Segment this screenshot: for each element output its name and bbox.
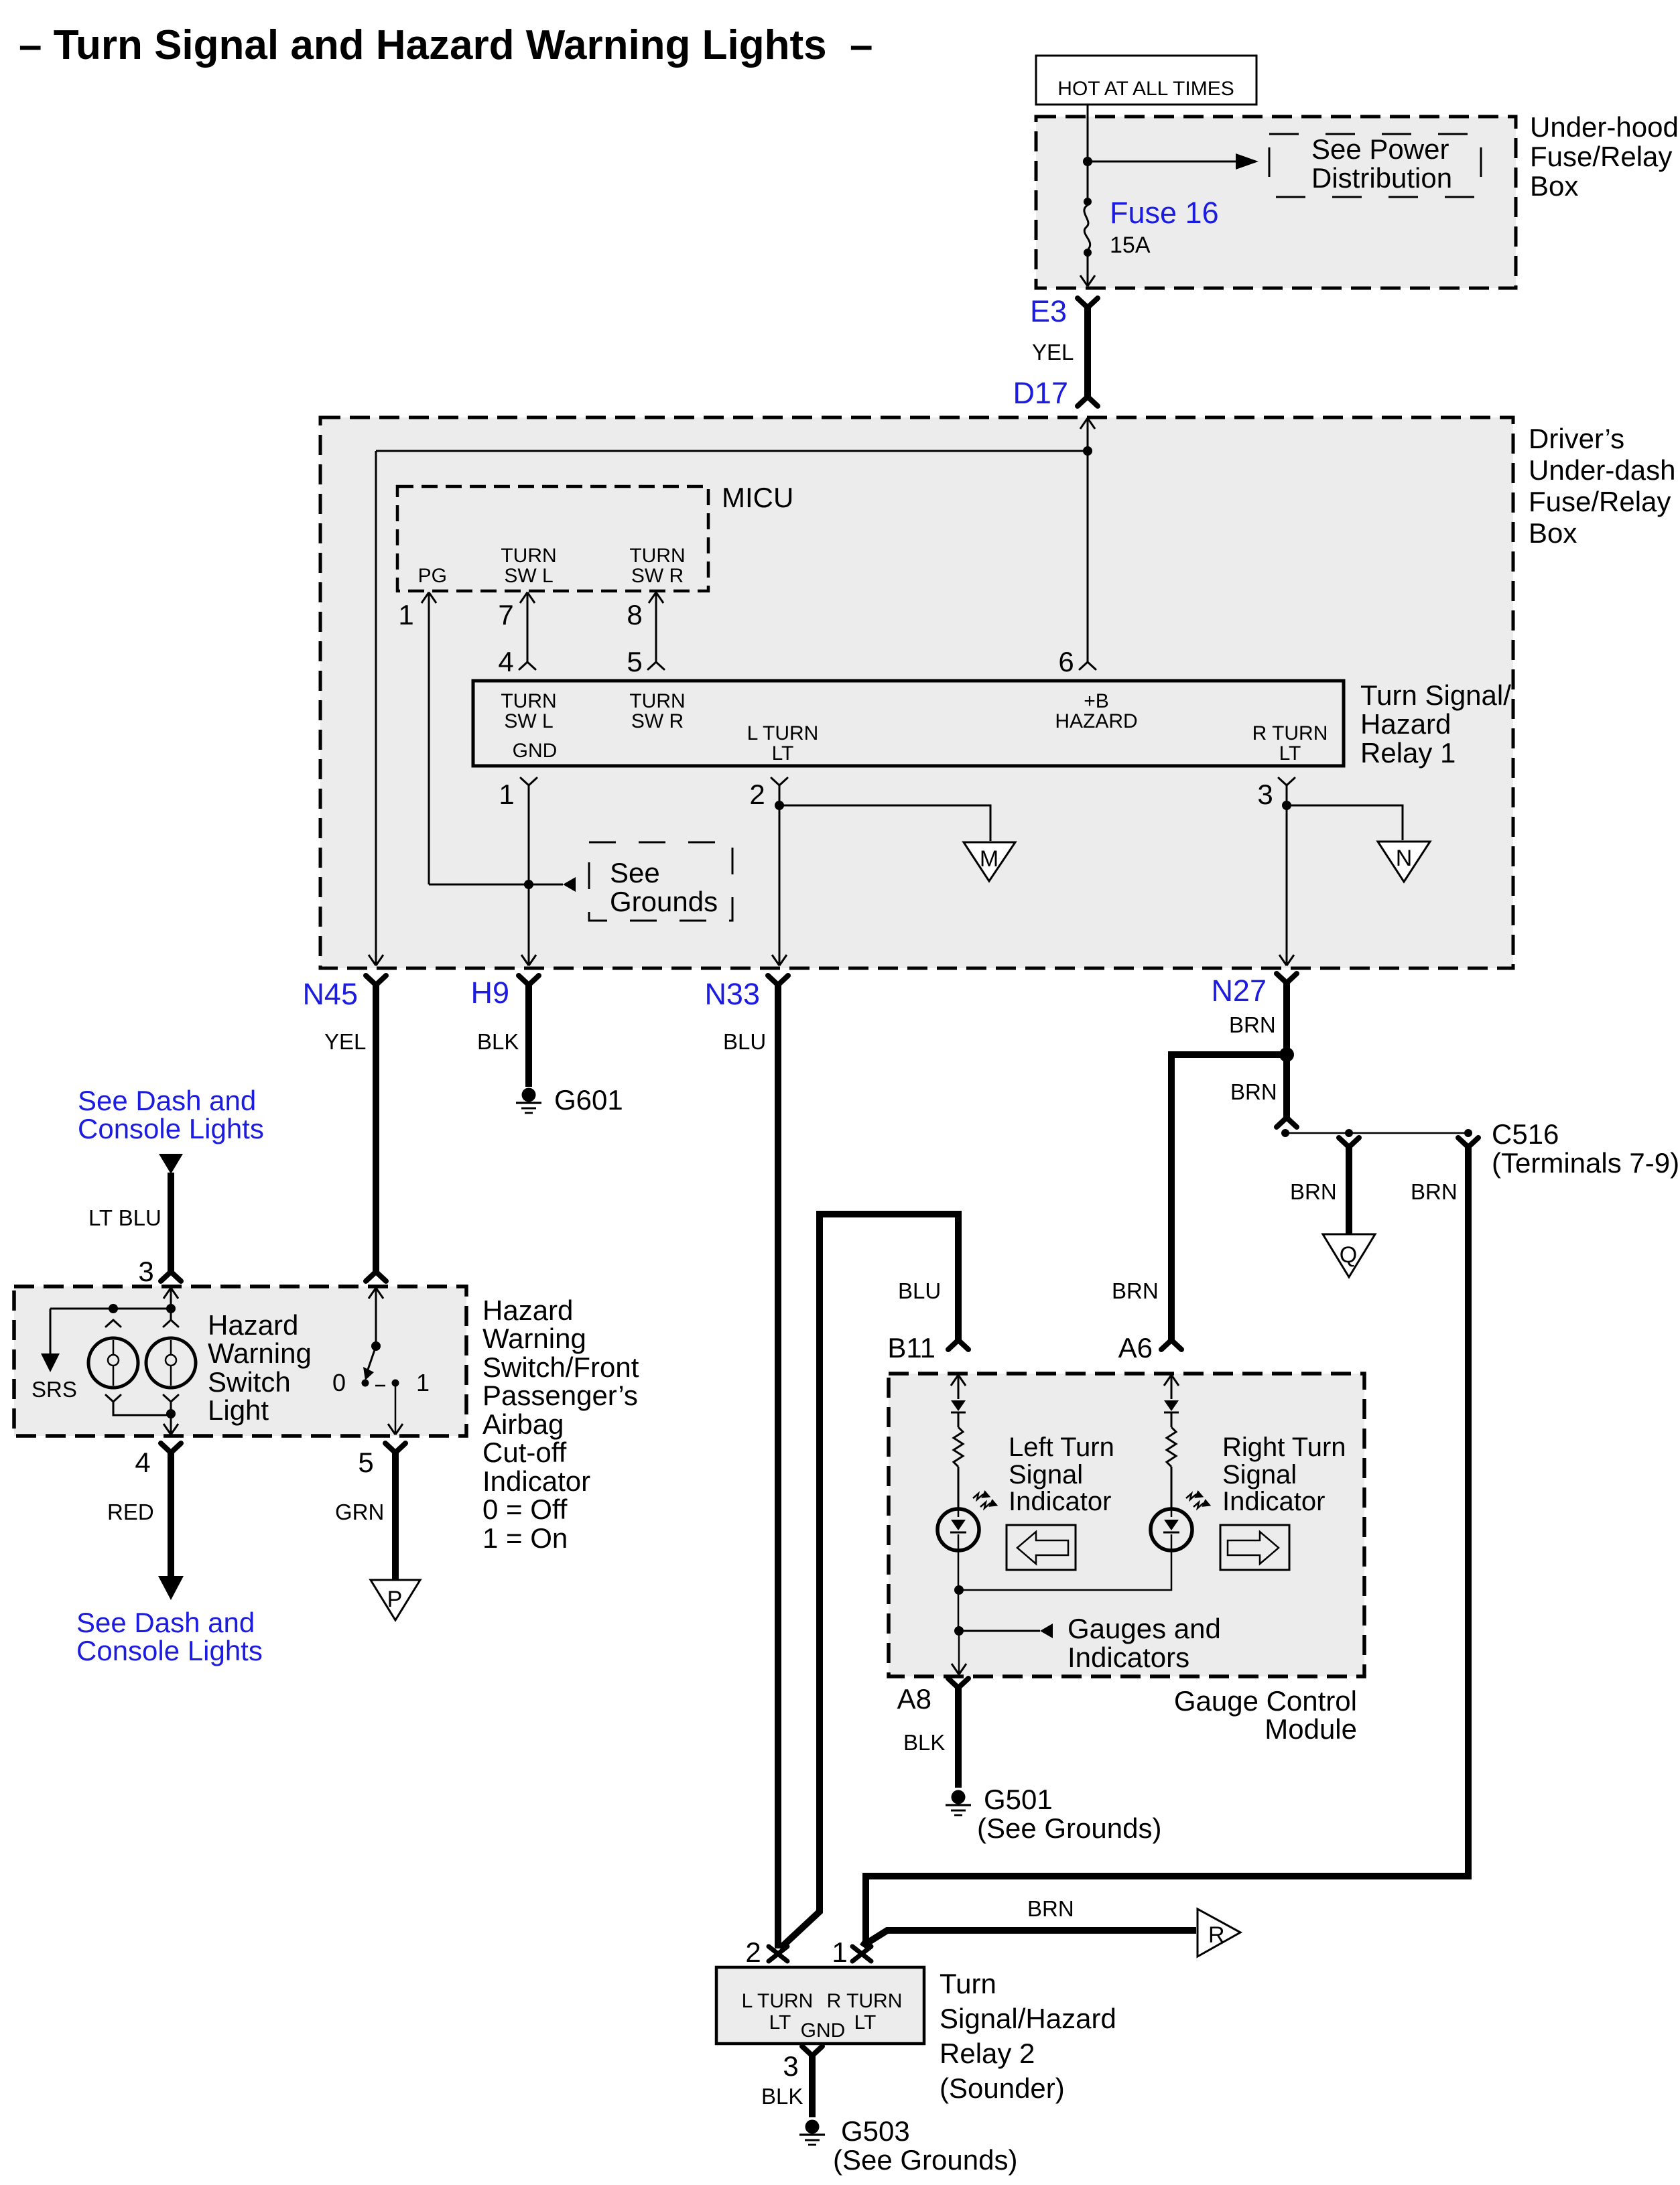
svg-text:8: 8 [627, 599, 642, 631]
node gauges tap [954, 1626, 964, 1636]
wire N45 YEL to hazard switch [373, 985, 379, 1272]
wire [1171, 1467, 1173, 1509]
wire lamp bus [50, 1308, 171, 1310]
connector relay2 pin3 [802, 2046, 822, 2056]
svg-text:1: 1 [398, 599, 413, 631]
svg-text:Fuse 16: Fuse 16 [1110, 196, 1219, 230]
svg-text:BLU: BLU [723, 1029, 766, 1054]
svg-text:SW L: SW L [504, 565, 553, 587]
svg-text:5: 5 [627, 646, 642, 677]
connector N33 [768, 976, 788, 985]
connector pin1 relay1 [521, 778, 537, 785]
power tag HOT AT ALL TIMES [1036, 56, 1256, 105]
wire to M [779, 805, 990, 841]
wire SRS drop [50, 1309, 52, 1353]
LED light rays right [1186, 1494, 1204, 1508]
gauge control module box [889, 1374, 1364, 1676]
wire feed to N45 drop [376, 450, 1088, 452]
svg-text:Distribution: Distribution [1311, 162, 1452, 194]
svg-text:Signal/Hazard: Signal/Hazard [940, 2003, 1116, 2034]
svg-text:3: 3 [138, 1256, 153, 1287]
under-hood fuse/relay box [1036, 117, 1516, 288]
svg-text:Fuse/Relay: Fuse/Relay [1529, 486, 1671, 517]
svg-text:H9: H9 [470, 976, 509, 1010]
fuse F16 top terminal [1084, 198, 1092, 206]
resistor R2 [1167, 1427, 1176, 1467]
svg-text:Box: Box [1529, 517, 1577, 549]
wire D17 feed into box [1080, 418, 1095, 429]
svg-text:Under-dash: Under-dash [1529, 454, 1675, 486]
svg-text:Gauge Control: Gauge Control [1174, 1685, 1357, 1717]
svg-text:(Sounder): (Sounder) [940, 2072, 1065, 2104]
svg-text:Under-hood: Under-hood [1530, 111, 1679, 143]
svg-text:See Dash and: See Dash and [76, 1607, 255, 1638]
svg-text:1: 1 [832, 1936, 847, 1968]
connector N27 [1277, 974, 1297, 983]
left arrow icon box [1007, 1525, 1076, 1570]
svg-text:4: 4 [135, 1447, 150, 1478]
svg-text:SRS: SRS [31, 1377, 77, 1402]
connector A8 [948, 1678, 968, 1688]
svg-text:E3: E3 [1030, 294, 1067, 328]
svg-text:N: N [1396, 846, 1413, 871]
connector pin2 relay1 [771, 778, 787, 785]
svg-text:Indicator: Indicator [1009, 1487, 1111, 1516]
svg-text:1: 1 [499, 779, 514, 810]
svg-text:LT: LT [769, 2011, 791, 2034]
triangle P destination [371, 1580, 420, 1620]
svg-text:R TURN: R TURN [827, 1990, 903, 2012]
svg-text:HAZARD: HAZARD [1055, 710, 1137, 732]
connector bulb1 top [106, 1320, 121, 1327]
svg-text:+B: +B [1084, 690, 1109, 712]
svg-text:Box: Box [1530, 170, 1578, 202]
svg-text:L TURN: L TURN [747, 722, 819, 744]
svg-text:M: M [980, 846, 998, 872]
triangle Q destination [1323, 1234, 1375, 1277]
wire A8 BLK to G501 [955, 1688, 962, 1788]
svg-text:See Dash and: See Dash and [78, 1085, 256, 1116]
wire C516 bus [1285, 1132, 1468, 1134]
connector pin 6 relay1 [1080, 662, 1096, 669]
svg-text:GRN: GRN [335, 1500, 384, 1524]
wire [1171, 1412, 1173, 1427]
wire [1087, 161, 1089, 200]
wire to power distribution [1088, 161, 1238, 163]
svg-text:N27: N27 [1211, 974, 1267, 1008]
svg-text:LT: LT [1279, 742, 1301, 765]
svg-text:PG: PG [418, 565, 447, 587]
svg-text:Indicator: Indicator [1222, 1487, 1325, 1516]
node switch pivot [371, 1341, 381, 1351]
svg-text:G601: G601 [554, 1084, 623, 1116]
wire N27 BRN [1283, 983, 1290, 1055]
svg-text:Relay 2: Relay 2 [940, 2038, 1035, 2069]
svg-text:BLK: BLK [477, 1029, 519, 1054]
svg-text:Signal: Signal [1222, 1460, 1297, 1489]
wire bulb1 to junction [113, 1402, 170, 1415]
svg-text:YEL: YEL [1032, 340, 1074, 365]
wire TURN SW L pin [520, 592, 535, 603]
connector bulb2 top [164, 1320, 178, 1327]
svg-text:Warning: Warning [482, 1323, 586, 1354]
contact gap dash [375, 1385, 385, 1387]
wire [958, 1412, 960, 1427]
svg-text:R: R [1208, 1922, 1225, 1948]
fuse F16 element [1084, 205, 1090, 250]
relay U1 Turn Signal/Hazard Relay 1 box [473, 681, 1344, 766]
right arrow icon box [1220, 1525, 1289, 1570]
fuse F16 bottom terminal [1084, 249, 1092, 257]
svg-text:Passenger’s: Passenger’s [482, 1380, 638, 1411]
svg-text:Warning: Warning [208, 1337, 312, 1369]
svg-text:BLK: BLK [903, 1730, 945, 1755]
node indicators join [954, 1585, 964, 1595]
svg-text:TURN: TURN [501, 690, 556, 712]
LED R indicator lamp [1151, 1509, 1192, 1550]
svg-text:BLU: BLU [898, 1278, 941, 1303]
node lamp bus right [166, 1304, 176, 1313]
wire C516 to relay2 pin1 BRN [1458, 1138, 1478, 1147]
svg-text:15A: 15A [1110, 233, 1151, 258]
svg-text:A6: A6 [1118, 1332, 1153, 1364]
svg-text:Signal: Signal [1009, 1460, 1083, 1489]
svg-text:4: 4 [498, 646, 513, 677]
svg-text:C516: C516 [1492, 1118, 1559, 1150]
wire junction to C516 BRN [1283, 1055, 1290, 1118]
svg-text:Console Lights: Console Lights [76, 1635, 263, 1666]
wire switch out [395, 1383, 397, 1434]
node ground junction [524, 880, 533, 889]
svg-text:B11: B11 [887, 1332, 935, 1364]
wire R TURN LT to N27 [1286, 785, 1288, 965]
node feed split [1083, 446, 1092, 456]
wire hazard pin6 inside [369, 1288, 383, 1299]
svg-text:LT: LT [772, 742, 794, 765]
resistor R1 [954, 1427, 963, 1467]
triangle N destination [1378, 842, 1430, 882]
svg-text:– Turn Signal and Hazard Warni: – Turn Signal and Hazard Warning Lights … [19, 22, 873, 68]
wire C516 to Q BRN [1339, 1138, 1359, 1147]
connector relay2 pin2 [769, 1946, 787, 1961]
wire RED see dash [168, 1453, 174, 1576]
wire to A8 [958, 1631, 960, 1674]
svg-text:SW L: SW L [504, 710, 553, 732]
svg-text:3: 3 [783, 2050, 798, 2082]
svg-text:SW R: SW R [631, 710, 684, 732]
connector bulb2 bottom [164, 1395, 178, 1402]
svg-text:TURN: TURN [501, 545, 556, 567]
svg-text:6: 6 [1058, 646, 1074, 677]
svg-text:3: 3 [1257, 779, 1273, 810]
svg-text:L TURN: L TURN [742, 1990, 814, 2012]
connector relay2 pin1 [852, 1946, 871, 1961]
diode D2 [1164, 1400, 1179, 1411]
diode D1 [951, 1400, 966, 1411]
wire [958, 1467, 960, 1509]
svg-text:Driver’s: Driver’s [1529, 423, 1624, 454]
svg-text:See: See [610, 857, 660, 888]
relay U2 Turn Signal/Hazard Relay 2 box [716, 1967, 924, 2044]
svg-text:Left Turn: Left Turn [1009, 1433, 1114, 1462]
node lamp out [166, 1409, 176, 1418]
wire relay2 pin2 to B11 BLU [780, 1214, 958, 1948]
svg-text:2: 2 [745, 1936, 761, 1968]
svg-text:BRN: BRN [1230, 1079, 1277, 1104]
node C516 terminal 9 [1464, 1129, 1472, 1137]
wire junction to A6 BRN [1171, 1055, 1287, 1340]
svg-text:Hazard: Hazard [1360, 708, 1451, 740]
contact 1 [392, 1380, 399, 1387]
svg-text:Grounds: Grounds [610, 886, 718, 917]
contact 0 [362, 1380, 369, 1387]
svg-text:BRN: BRN [1290, 1179, 1337, 1204]
wire hazard pin3 inside [164, 1288, 178, 1299]
connector H9 [519, 976, 539, 985]
wire GRN to P [392, 1453, 399, 1580]
svg-text:Switch: Switch [208, 1366, 291, 1398]
bulb L2 hazard switch light [146, 1338, 196, 1388]
wire PG to ground junction [429, 884, 527, 886]
svg-text:GND: GND [513, 740, 558, 762]
wire E3-D17 YEL [1084, 308, 1091, 397]
ground G501 [952, 1790, 966, 1804]
svg-text:Switch/Front: Switch/Front [482, 1351, 639, 1383]
node BRN junction [1279, 1047, 1294, 1062]
wire H9 BLK to G601 [525, 985, 532, 1087]
hazard warning switch box [14, 1286, 466, 1436]
svg-text:Indicator: Indicator [482, 1465, 590, 1497]
svg-text:Module: Module [1265, 1713, 1357, 1745]
svg-text:0 = Off: 0 = Off [482, 1494, 568, 1525]
MICU box [397, 486, 708, 591]
svg-text:See Power: See Power [1311, 133, 1449, 165]
svg-text:A8: A8 [897, 1683, 931, 1715]
svg-text:BLK: BLK [761, 2084, 803, 2109]
wire L TURN LT to N33 [779, 785, 781, 965]
svg-text:BRN: BRN [1027, 1896, 1074, 1921]
svg-text:Hazard: Hazard [208, 1309, 298, 1341]
svg-text:Airbag: Airbag [482, 1408, 564, 1440]
svg-text:Relay 1: Relay 1 [1360, 737, 1456, 769]
svg-text:Hazard: Hazard [482, 1295, 573, 1326]
triangle M destination [964, 842, 1015, 881]
node C516 terminal 7 [1345, 1129, 1353, 1137]
connector pin3 relay1 [1279, 778, 1295, 785]
svg-text:MICU: MICU [722, 482, 793, 513]
svg-text:Fuse/Relay: Fuse/Relay [1530, 141, 1672, 172]
LED light rays left [973, 1494, 990, 1508]
svg-text:Cut-off: Cut-off [482, 1437, 567, 1468]
connector hazard pin4 [161, 1443, 181, 1453]
svg-text:GND: GND [801, 2020, 846, 2042]
svg-text:Indicators: Indicators [1068, 1642, 1189, 1673]
wire LT BLU to hazard pin3 [159, 1154, 183, 1174]
svg-text:N45: N45 [302, 977, 358, 1011]
switch lever S1 [368, 1346, 376, 1370]
see-grounds arrow [529, 884, 563, 886]
svg-text:(See Grounds): (See Grounds) [977, 1812, 1161, 1844]
wire relay2 BLK to G503 [809, 2056, 816, 2117]
svg-text:RED: RED [107, 1500, 154, 1524]
svg-text:R TURN: R TURN [1252, 722, 1328, 744]
svg-text:LT: LT [854, 2011, 877, 2034]
connector D17 [1078, 397, 1098, 406]
ground G503 [805, 2120, 820, 2134]
svg-text:Turn Signal/: Turn Signal/ [1360, 679, 1511, 711]
ground G601 [522, 1088, 536, 1102]
node L turn split [775, 801, 784, 810]
svg-text:0: 0 [332, 1369, 346, 1396]
svg-text:Right Turn: Right Turn [1222, 1433, 1346, 1462]
wire B11 inside [951, 1375, 966, 1386]
See Power Distribution reference box [1269, 134, 1481, 197]
svg-text:N33: N33 [704, 977, 760, 1011]
svg-text:YEL: YEL [324, 1029, 366, 1054]
wire LED right to join [959, 1550, 1171, 1590]
LED L indicator lamp [938, 1509, 979, 1550]
connector hazard pin5 [385, 1443, 405, 1453]
svg-text:Turn: Turn [940, 1968, 996, 1999]
svg-text:BRN: BRN [1112, 1278, 1159, 1303]
connector E3 [1078, 298, 1098, 308]
gauges arrow [959, 1630, 1040, 1632]
See Grounds reference box [589, 842, 732, 921]
svg-text:(See Grounds): (See Grounds) [833, 2144, 1017, 2176]
wire A6 inside [1164, 1375, 1179, 1386]
svg-text:Light: Light [208, 1394, 269, 1426]
svg-text:TURN: TURN [629, 545, 685, 567]
node R turn split [1282, 801, 1291, 810]
wire battery feed [1087, 105, 1089, 158]
driver's under-dash fuse/relay box [320, 417, 1513, 968]
svg-text:BRN: BRN [1411, 1179, 1458, 1204]
node C516 terminal 8 [1281, 1129, 1289, 1137]
wire LED left down [958, 1550, 960, 1631]
wire TURN SW R pin [649, 592, 663, 603]
svg-text:5: 5 [358, 1447, 373, 1478]
node battery feed junction [1083, 157, 1092, 166]
svg-text:BRN: BRN [1229, 1012, 1276, 1037]
wire GND to H9 [528, 785, 530, 965]
node lamp bus left [109, 1304, 118, 1313]
svg-text:(Terminals 7-9): (Terminals 7-9) [1492, 1147, 1679, 1179]
wire relay2 pin1 BRN to R [864, 1930, 1196, 1945]
wire fuse to E3 [1087, 255, 1089, 285]
connector bulb1 bottom [106, 1395, 121, 1402]
svg-text:TURN: TURN [629, 690, 685, 712]
svg-text:SW R: SW R [631, 565, 684, 587]
svg-text:D17: D17 [1013, 376, 1068, 410]
svg-text:1: 1 [416, 1369, 430, 1396]
svg-text:P: P [387, 1587, 403, 1612]
svg-text:G501: G501 [984, 1784, 1053, 1815]
svg-text:Q: Q [1340, 1242, 1357, 1268]
svg-text:2: 2 [749, 779, 765, 810]
triangle R destination [1198, 1909, 1240, 1957]
wire to N [1287, 805, 1403, 840]
bulb L1 hazard switch light [88, 1338, 138, 1388]
connector N45 [366, 976, 386, 985]
svg-text:7: 7 [498, 599, 513, 631]
svg-text:G503: G503 [841, 2115, 910, 2147]
wire lamp out [170, 1402, 172, 1434]
svg-text:HOT AT ALL TIMES: HOT AT ALL TIMES [1057, 78, 1234, 100]
svg-text:LT BLU: LT BLU [88, 1205, 161, 1230]
wire N33 BLU to relay2 pin2 [775, 985, 781, 1948]
svg-text:Gauges and: Gauges and [1068, 1613, 1221, 1644]
wire PG pin arrow [422, 592, 436, 603]
svg-text:1 = On: 1 = On [482, 1522, 568, 1554]
svg-text:Console Lights: Console Lights [78, 1113, 264, 1144]
